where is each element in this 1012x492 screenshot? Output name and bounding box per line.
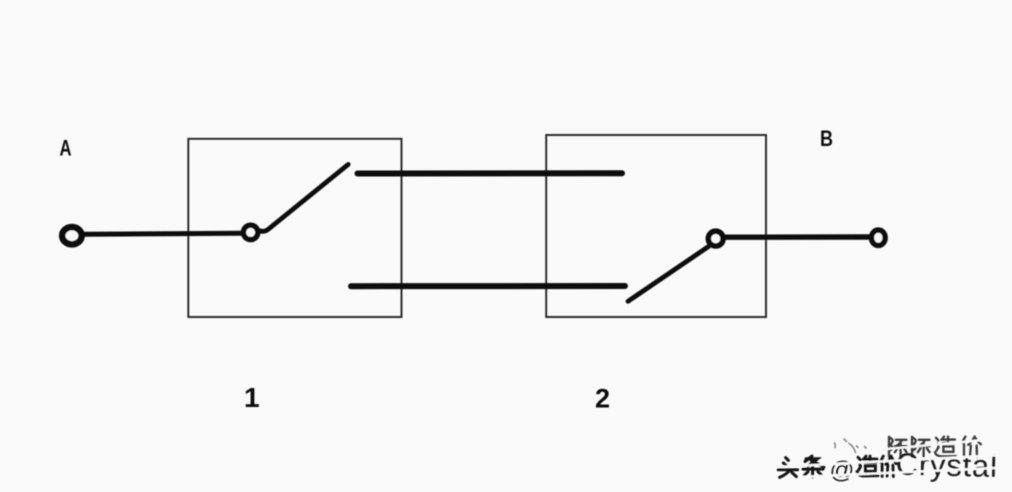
switch 1 common node (pivot) <box>243 225 257 239</box>
watermark decoration sparkle strokes <box>835 439 867 453</box>
wire from switch 2 common node to terminal B <box>725 234 868 240</box>
terminal B (right terminal circle) <box>871 230 885 245</box>
watermark black char tou (头) <box>778 458 797 478</box>
svg-text:2: 2 <box>595 384 610 414</box>
top traveler wire L1 between switch 1 and switch 2 <box>358 170 623 176</box>
watermark gray char chen #2 (陈) <box>912 437 930 457</box>
bottom traveler wire L2 between switch 1 and switch 2 <box>351 283 625 289</box>
watermark gray char chen #1 (陈) <box>889 437 907 457</box>
watermark black char jia (价) <box>880 456 896 476</box>
svg-text:Crystal: Crystal <box>895 446 998 483</box>
svg-text:B: B <box>820 126 833 151</box>
terminal A (left terminal circle) <box>62 227 81 244</box>
watermark gray char jia (价) <box>962 437 981 457</box>
watermark black char tiao (条) <box>803 456 824 477</box>
svg-text:1: 1 <box>244 382 260 413</box>
svg-text:@: @ <box>830 457 855 484</box>
switch 2 common node (pivot) <box>708 231 723 246</box>
switch box S2 (enclosure of switch 2) <box>546 135 766 317</box>
switch 2 lever (thrown to bottom traveler) <box>628 247 709 302</box>
watermark black char zao (造) <box>857 456 878 476</box>
wire from terminal A to switch 1 common node <box>84 233 242 234</box>
switch 1 lever (thrown to top traveler) <box>257 164 348 231</box>
watermark gray char zao (造) <box>935 437 956 457</box>
watermark white offset slashes <box>777 440 1002 477</box>
switch box S1 (enclosure of switch 1) <box>188 139 401 317</box>
svg-text:A: A <box>60 136 72 161</box>
